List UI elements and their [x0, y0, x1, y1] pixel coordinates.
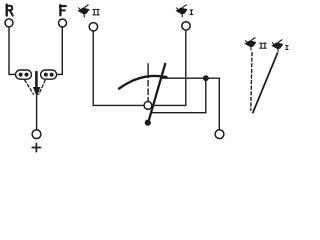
current arrow symbol II (top) [78, 5, 89, 17]
label II (top) [93, 9, 99, 15]
terminal label F [60, 5, 66, 15]
plus sign [32, 143, 40, 151]
battery terminal circle [32, 130, 41, 139]
terminal F [59, 19, 67, 27]
legend label II [260, 43, 266, 48]
wire lever to battery [36, 96, 38, 130]
dashed throw to contact F [39, 80, 45, 94]
legend arrow symbol II [245, 38, 256, 50]
current arrow symbol I (top) [176, 5, 187, 17]
wire node to output terminal [218, 78, 220, 129]
wire node down to lever [151, 78, 206, 113]
terminal R [5, 19, 13, 27]
terminal I [182, 22, 190, 30]
pivot contact circle [144, 102, 152, 110]
wire lever-I to node [161, 77, 220, 79]
contact F (stadium with two dots) [41, 70, 57, 79]
legend lever II (dashed) [251, 53, 252, 111]
label I (top) [190, 10, 193, 15]
travel arc of selector [119, 76, 167, 89]
legend arrow symbol I [272, 40, 283, 52]
contact R (stadium with two dots) [16, 70, 32, 79]
node junction dot [203, 75, 209, 81]
legend lever I (solid) [253, 53, 278, 112]
wire F to right contact [57, 27, 63, 74]
dashed throw to contact R [25, 80, 34, 94]
output terminal circle [215, 130, 224, 139]
terminal label R [7, 5, 13, 16]
legend label I [286, 46, 288, 50]
wire II to pivot [93, 31, 144, 105]
lever position I (solid, center) [148, 64, 166, 124]
terminal II [89, 23, 97, 31]
selector lever (left, with arrowhead) [35, 72, 38, 89]
wire R to left contact [9, 27, 15, 74]
wire I to pivot [152, 30, 186, 105]
lever end dot [145, 120, 151, 126]
lever position II (dashed, center) [147, 64, 149, 78]
